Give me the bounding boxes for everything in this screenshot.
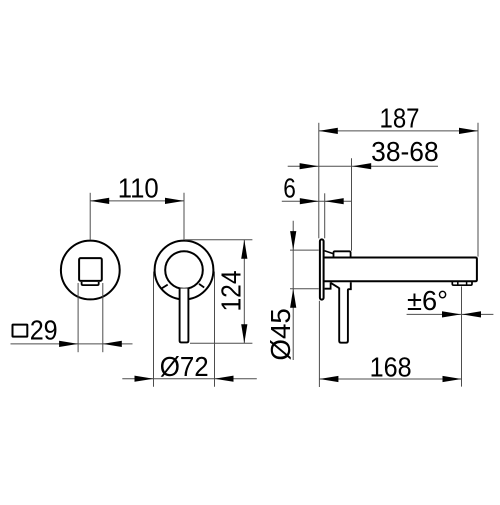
square spout front (79, 258, 102, 281)
body step top (334, 251, 351, 257)
lever stem side (339, 282, 351, 342)
aerator (452, 282, 472, 286)
handle stem front (180, 289, 189, 343)
dimension 6 (282, 193, 352, 238)
wall plate (320, 239, 324, 299)
handle ring inner (165, 251, 203, 289)
cone top (325, 251, 334, 254)
hub bottom bracket (325, 282, 331, 288)
dimension dia45 (290, 221, 319, 360)
dimension 187 (319, 123, 478, 257)
dimension 168 (319, 301, 461, 387)
dimension 124 (185, 240, 252, 344)
svg-text:Ø45: Ø45 (265, 308, 296, 361)
svg-text:±6°: ±6° (407, 285, 448, 316)
svg-text:Ø72: Ø72 (160, 351, 209, 382)
svg-text:168: 168 (370, 352, 412, 383)
hub cone bottom (331, 283, 340, 288)
dimension 38-68 (288, 158, 438, 251)
svg-text:187: 187 (380, 102, 420, 133)
dimension plusminus 6deg (407, 286, 494, 386)
tick right (199, 284, 204, 288)
svg-text:38-68: 38-68 (371, 136, 439, 167)
square glyph (13, 325, 28, 337)
tick left (162, 285, 168, 289)
dimension 110 (90, 193, 184, 240)
escutcheon circle left (61, 241, 120, 300)
spout side (325, 258, 477, 282)
svg-text:29: 29 (30, 315, 58, 346)
svg-text:6: 6 (283, 172, 296, 203)
svg-text:110: 110 (118, 173, 159, 204)
dimension dia72 (122, 272, 256, 387)
svg-text:124: 124 (215, 271, 246, 312)
escutcheon circle right outer (155, 241, 214, 300)
dimension square29 (11, 283, 133, 352)
spout lip (82, 282, 99, 285)
